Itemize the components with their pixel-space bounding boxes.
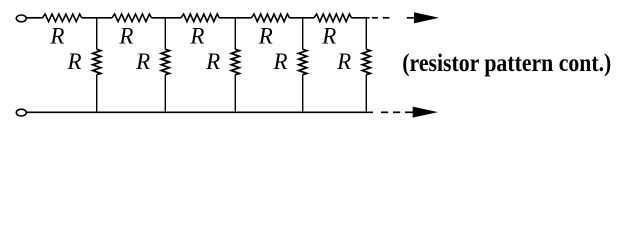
- wire: shunt resistor #5 down to bottom rail: [365, 75, 367, 113]
- svg-text:R: R: [321, 23, 336, 48]
- svg-text:(resistor pattern cont.): (resistor pattern cont.): [402, 50, 611, 77]
- input terminal (top left, open circle): [16, 15, 26, 22]
- svg-text:R: R: [336, 49, 351, 74]
- svg-text:R: R: [66, 49, 81, 74]
- resistor R (shunt #3): [231, 49, 239, 74]
- wire: R3 to R4 (node 3): [219, 17, 251, 19]
- wire: node 1 down to shunt resistor #1: [96, 18, 98, 50]
- svg-text:R: R: [49, 23, 64, 48]
- resistor R (shunt #5): [362, 49, 370, 74]
- svg-text:R: R: [189, 23, 204, 48]
- wire: shunt resistor #1 down to bottom rail: [96, 75, 98, 113]
- arrow (bottom rail continues): [405, 111, 414, 113]
- wire: R1 to R2 (node 1): [82, 17, 112, 19]
- wire: shunt resistor #3 down to bottom rail: [234, 75, 236, 113]
- wire: node 4 down to shunt resistor #4: [302, 18, 304, 50]
- resistor R (series #4, top rail): [251, 14, 289, 22]
- dashed continuation (bottom rail): [381, 111, 388, 113]
- resistor R (series #3, top rail): [181, 14, 219, 22]
- svg-text:R: R: [258, 23, 273, 48]
- wire: node 2 down to shunt resistor #2: [164, 18, 166, 50]
- wire: top terminal to R1: [27, 17, 43, 19]
- svg-text:R: R: [272, 49, 287, 74]
- wire: shunt resistor #2 down to bottom rail: [164, 75, 166, 113]
- wire: node 5 down to shunt resistor #5: [365, 18, 367, 50]
- resistor R (series #2, top rail): [112, 14, 151, 22]
- resistor R (shunt #4): [299, 49, 307, 74]
- input terminal (bottom left, open circle): [16, 109, 26, 116]
- wire: node 3 down to shunt resistor #3: [234, 18, 236, 50]
- arrow (top rail continues): [407, 17, 416, 19]
- wire: bottom rail: [27, 111, 373, 113]
- wire: R5 to top rail end: [351, 17, 369, 19]
- resistor R (shunt #2): [161, 49, 169, 74]
- svg-text:R: R: [118, 23, 133, 48]
- svg-text:R: R: [205, 49, 220, 74]
- resistor R (series #1, top rail): [43, 14, 82, 22]
- wire: shunt resistor #4 down to bottom rail: [302, 75, 304, 113]
- wire: R2 to R3 (node 2): [151, 17, 181, 19]
- resistor R (series #5, top rail): [314, 14, 351, 22]
- wire: R4 to R5 (node 4): [289, 17, 314, 19]
- dashed continuation (top rail): [372, 17, 378, 19]
- resistor R (shunt #1): [93, 49, 101, 74]
- svg-text:R: R: [135, 49, 150, 74]
